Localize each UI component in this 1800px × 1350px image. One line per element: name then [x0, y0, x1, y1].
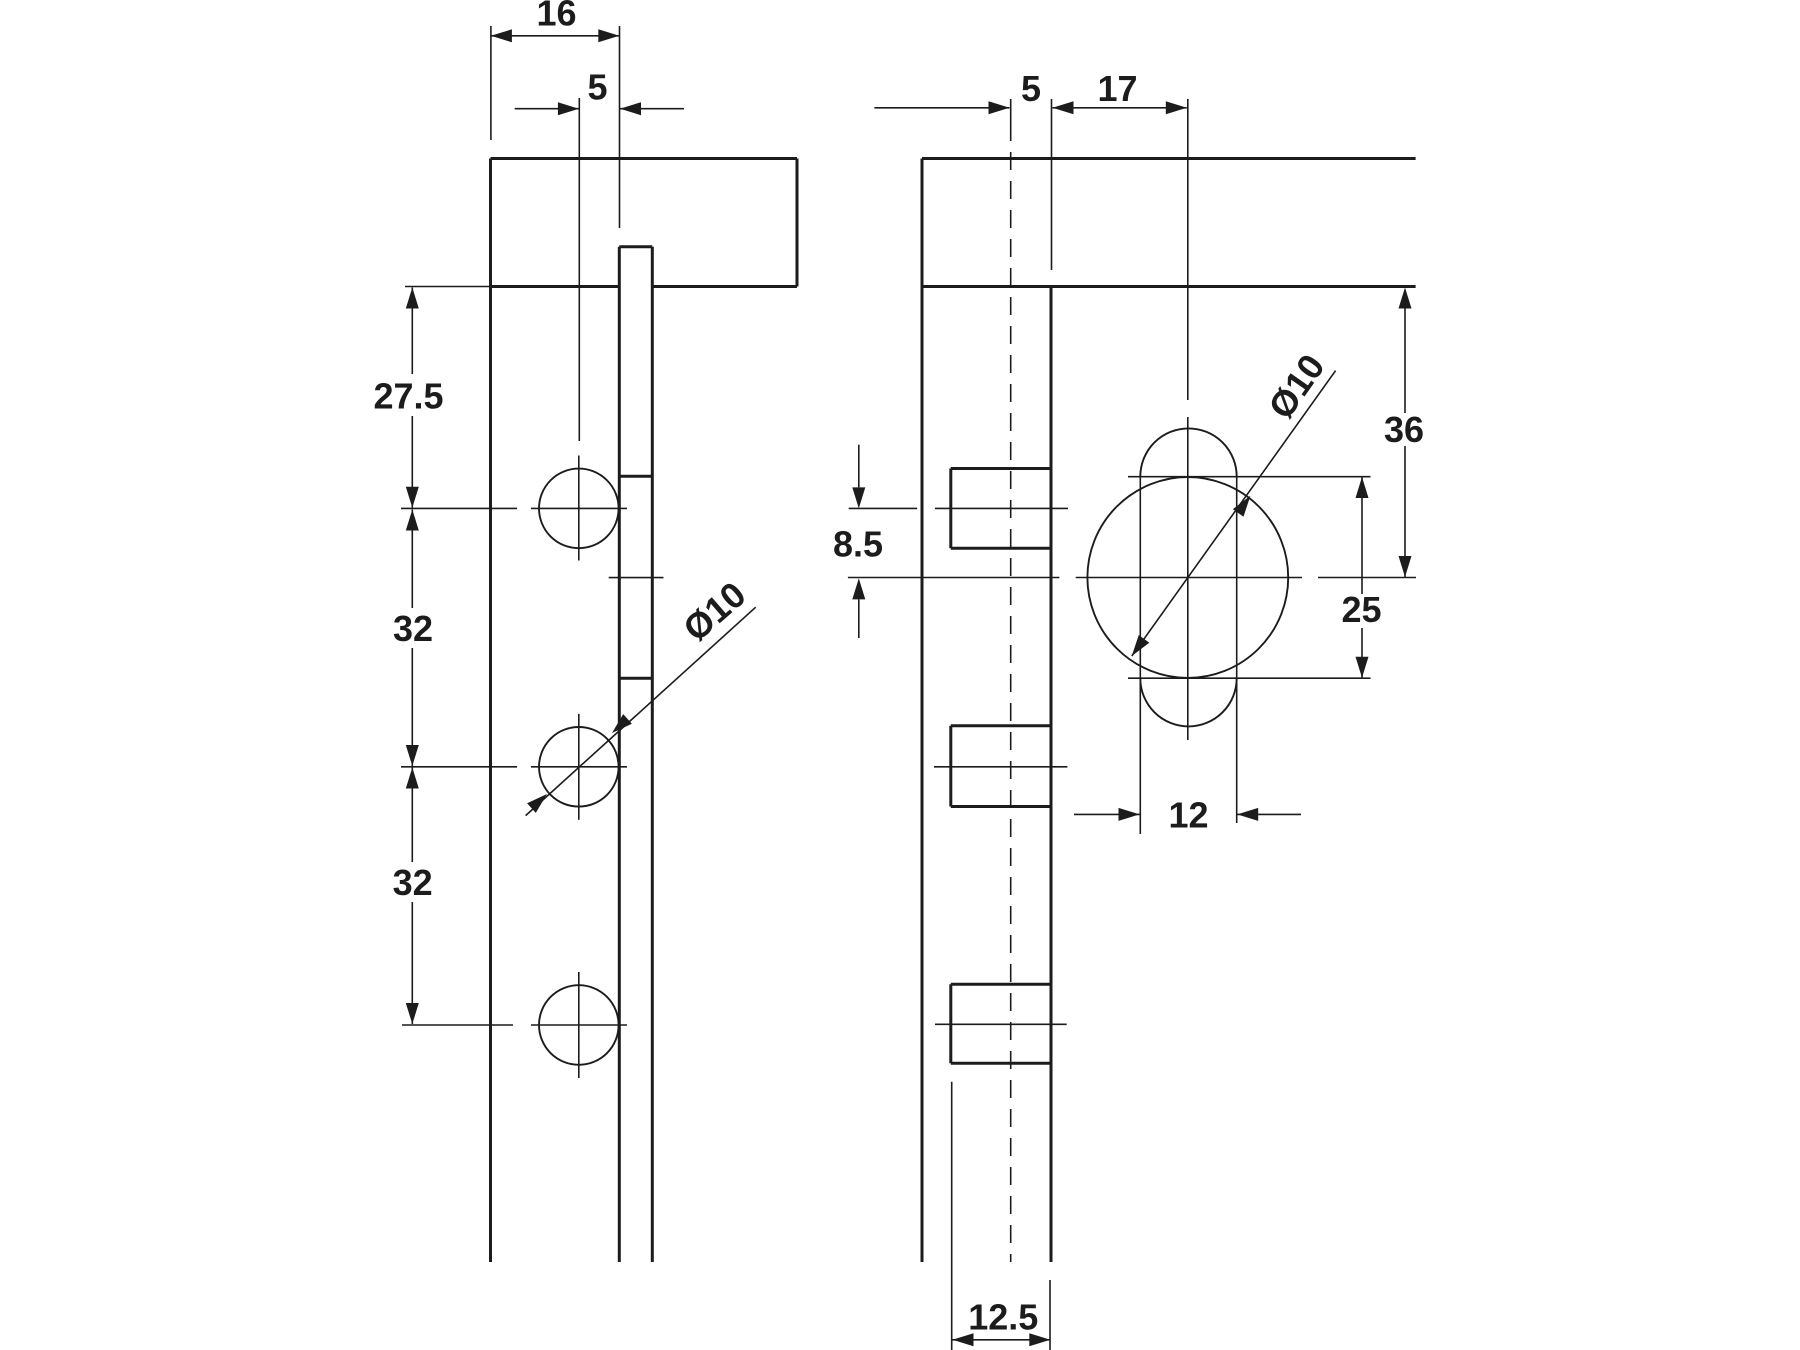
svg-text:16: 16 — [536, 0, 576, 34]
svg-text:8.5: 8.5 — [833, 524, 883, 565]
dimension 12 label — [1168, 795, 1208, 836]
front view tab joint upper — [619, 475, 652, 478]
dimension 16 extension lines — [491, 26, 620, 228]
dimension 17 label — [1097, 68, 1137, 109]
dimension 27.5 line — [406, 288, 419, 508]
dimension 16 line — [491, 29, 619, 42]
keyhole slot bottom cap — [1140, 678, 1236, 726]
keyhole slot right side — [1236, 477, 1238, 824]
section dashed centerline — [1010, 99, 1012, 1262]
dimension 8.5 label — [833, 524, 883, 565]
section strip left edge — [921, 159, 924, 1263]
keyhole large circle — [1087, 477, 1288, 678]
dimension 17 line — [1053, 101, 1187, 114]
dimension 12.5 extension lines — [952, 1082, 1050, 1350]
dimension 5 front label — [587, 67, 607, 108]
front view strip left edge — [489, 287, 492, 1263]
section strip right edge — [1050, 287, 1053, 1263]
section hole notch bottom — [951, 984, 1051, 1063]
hole circle middle — [539, 727, 619, 807]
dimension 12.5 line — [953, 1333, 1051, 1346]
front view tab center tick — [609, 577, 664, 579]
dimension 32 upper label — [393, 608, 433, 649]
svg-text:Ø10: Ø10 — [1260, 347, 1333, 426]
keyhole vertical centerline — [1187, 99, 1189, 740]
dimension 27.5 extension ticks — [401, 287, 517, 509]
section hole diameter leader — [1132, 371, 1336, 656]
front hole diameter label — [675, 574, 753, 650]
front view tab right edge — [651, 247, 654, 1262]
svg-text:12: 12 — [1168, 795, 1208, 836]
dimension 5 front extension line — [578, 98, 580, 441]
front hole diameter leader — [526, 607, 756, 815]
section hole notch middle — [951, 726, 1051, 807]
keyhole top tangent extension — [1128, 476, 1371, 478]
dimension 36 label — [1384, 409, 1424, 450]
hole middle crosshair — [531, 714, 627, 820]
dimension 25 line — [1356, 477, 1369, 678]
hole bottom crosshair — [531, 972, 627, 1078]
dimension 5 section label — [1021, 68, 1041, 109]
dimension 32 upper extension tick — [401, 766, 517, 768]
keyhole bottom tangent extension — [1128, 677, 1371, 679]
svg-text:Ø10: Ø10 — [675, 574, 753, 650]
hole circle top — [539, 469, 619, 549]
svg-text:36: 36 — [1384, 409, 1424, 450]
dimension 36 line — [1399, 288, 1412, 578]
section notch middle center tick — [934, 766, 1067, 768]
dimension 32 lower line — [406, 768, 419, 1025]
dimension 5 section line — [874, 101, 1009, 114]
dimension 16 label — [536, 0, 576, 34]
dimension 8.5 line — [852, 445, 865, 638]
keyhole slot top cap — [1140, 428, 1236, 476]
keyhole center horizontal line — [848, 577, 1416, 579]
svg-text:32: 32 — [393, 862, 433, 903]
dimension 32 lower label — [393, 862, 433, 903]
front view flange outline — [491, 159, 798, 287]
svg-text:5: 5 — [587, 67, 607, 108]
dimension 25 label — [1341, 589, 1381, 630]
dimension 17 extension line — [1051, 99, 1053, 270]
front view tab joint lower — [619, 677, 652, 680]
section flange outline — [922, 159, 1416, 287]
section hole diameter label — [1260, 347, 1333, 426]
dimension 5 front line — [515, 102, 684, 115]
svg-text:12.5: 12.5 — [968, 1297, 1038, 1338]
svg-text:17: 17 — [1097, 68, 1137, 109]
keyhole slot left side — [1139, 477, 1141, 835]
dimension 12.5 label — [968, 1297, 1038, 1338]
dimension 27.5 label — [373, 376, 443, 417]
section notch top center ticks — [849, 507, 1068, 509]
svg-text:32: 32 — [393, 608, 433, 649]
svg-text:25: 25 — [1341, 589, 1381, 630]
dimension 12 line — [1074, 808, 1301, 821]
hole top crosshair — [531, 456, 627, 561]
front view tab left edge — [618, 247, 621, 1262]
hole circle bottom — [539, 985, 619, 1065]
svg-text:5: 5 — [1021, 68, 1041, 109]
front view tab top edge — [619, 245, 652, 248]
dimension 32 upper line — [406, 510, 419, 767]
section notch bottom center tick — [935, 1023, 1067, 1025]
section hole notch top — [951, 469, 1051, 549]
dimension 32 lower extension tick — [402, 1024, 513, 1026]
svg-text:27.5: 27.5 — [373, 376, 443, 417]
